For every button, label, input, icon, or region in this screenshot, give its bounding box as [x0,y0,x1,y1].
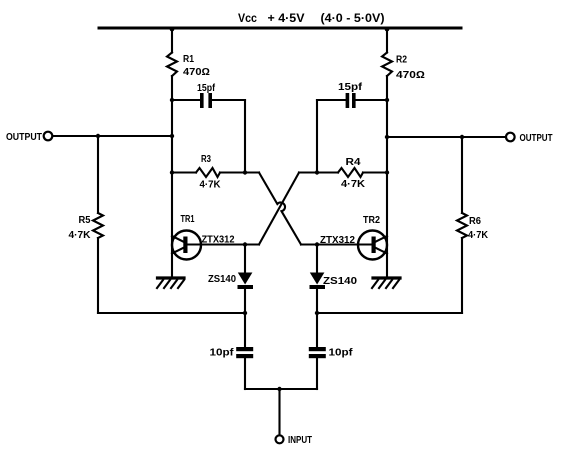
wire rail to R2 [386,28,388,53]
node OUTPUT-R5 junction [96,134,100,138]
node input junction [277,387,281,391]
R4 label [346,157,361,168]
svg-text:R5: R5 [79,215,91,226]
svg-text:R4: R4 [346,157,361,168]
Vcc range label [321,13,385,25]
svg-text:R2: R2 [396,55,407,66]
svg-text:10pf: 10pf [210,348,235,359]
OUTPUT left label [6,132,42,143]
wire node A down (C1 to R3 right end) [244,100,246,172]
C3 value label 10pf [210,348,235,359]
svg-text:10pf: 10pf [329,348,354,359]
svg-text:OUTPUT: OUTPUT [6,132,42,143]
R5 value 4.7K [69,230,92,241]
wire R6 branch lower [461,238,463,313]
node C2 right [385,98,389,102]
wire to capacitor C2 left plate [317,99,346,101]
R6 value 4.7K [468,230,489,241]
wire bottom center join [245,388,317,390]
capacitor C4 10pf right [309,347,326,358]
node OUTPUT-R6 junction [460,135,464,139]
OUTPUT left terminal [44,132,53,141]
svg-text:4·7K: 4·7K [69,230,92,241]
wire node B up to capacitor C2 [316,100,318,173]
wire C3 to bottom junction [244,358,246,389]
svg-text:R3: R3 [201,154,211,165]
node R4 right junction [385,170,389,174]
svg-text:ZS140: ZS140 [323,276,357,287]
OUTPUT right terminal [506,133,515,142]
node OUTPUT-collector right [385,135,389,139]
wire TR1 collector line (R1 to ground) [171,76,173,277]
R2 value 470 ohm [396,70,425,81]
D1 label ZS140 [208,274,236,285]
node D2-branch / bottom-right rail [315,311,319,315]
wire R4 to collector [363,171,387,173]
wire input lead [278,389,280,435]
node R3 left junction [170,170,174,174]
node D1-branch / bottom-left rail [243,311,247,315]
svg-text:470Ω: 470Ω [183,67,210,78]
ground TR2 emitter [372,278,400,288]
wire diode D2 to bottom node [316,289,318,347]
node rail-R1 [170,27,175,32]
node TR1 base / D1 junction [243,242,247,246]
transistor TR1 [172,231,201,260]
wire R5 branch upper [97,136,99,213]
svg-text:4·7K: 4·7K [200,180,222,191]
resistor R5 [93,213,103,238]
wire R5 branch lower [97,238,99,313]
INPUT terminal [276,435,284,443]
INPUT label [288,435,312,446]
node C1 left [170,98,174,102]
svg-text:(4·0 - 5·0V): (4·0 - 5·0V) [321,13,385,25]
wire bottom-left rail (R5 to D1 branch) [98,312,245,314]
C1 value label 15pf [197,83,216,94]
TR2 label [363,215,380,226]
resistor R1 [167,53,177,77]
svg-text:+ 4·5V: + 4·5V [268,13,305,25]
wire R6 branch upper [461,137,463,213]
resistor R6 [457,213,467,238]
svg-text:Vcc: Vcc [238,13,258,25]
svg-text:R6: R6 [469,216,481,227]
wire node A' to diode D1 [244,245,246,274]
wire cross stub top-left [245,171,259,173]
resistor R3 [196,168,220,177]
C4 value label 10pf [329,348,354,359]
node OUTPUT-collector junction [170,134,174,138]
wire node B to R4 [317,171,338,173]
Vcc power rail [99,27,461,30]
wire TR1 base lead [188,243,260,245]
TR1 type label ZTX312 [202,235,235,246]
wire capacitor C1 right plate to node [213,99,246,101]
R3 value 4.7K [200,180,222,191]
wire OUTPUT right [387,136,506,138]
svg-text:ZS140: ZS140 [208,274,236,285]
svg-text:4·7K: 4·7K [341,179,366,190]
resistor R2 [382,53,392,77]
svg-text:470Ω: 470Ω [396,70,425,81]
wire C4 to bottom junction [316,358,318,389]
svg-text:INPUT: INPUT [288,435,312,446]
svg-text:TR2: TR2 [363,215,380,226]
R4 value 4.7K [341,179,366,190]
diode D2 ZS140 [310,273,326,290]
Vcc label [238,13,305,25]
TR1 label [181,214,195,225]
wire to capacitor C1 left plate [172,99,200,101]
OUTPUT right label [520,133,553,144]
ground TR1 emitter [157,278,184,288]
R5 label [79,215,91,226]
wire cross stub top-right [299,171,317,173]
transistor TR2 [358,231,387,260]
wire cross diagonal B (node B to TR1 base) [259,173,299,245]
R1 label [183,54,194,65]
wire bottom-right rail (D2 branch to R6) [317,312,462,314]
diode D1 ZS140 [238,273,254,290]
R2 label [396,55,407,66]
node rail-R2 [385,27,390,32]
svg-text:15pf: 15pf [338,82,363,93]
C2 value label 15pf [338,82,363,93]
capacitor C3 10pf left [236,347,253,358]
wire collector to R3 [172,171,196,173]
wire TR2 collector line (R2 to ground) [386,76,388,277]
capacitor C1 15pf [200,93,212,108]
node B (R4/C2/cross) [315,170,319,174]
wire cross diagonal A (node A to TR2 base) with hop [259,173,301,245]
svg-text:15pf: 15pf [197,83,216,94]
svg-text:OUTPUT: OUTPUT [520,133,553,144]
wire diode D1 to bottom node [244,289,246,347]
TR2 type label ZTX312 [320,235,355,246]
svg-text:R1: R1 [183,54,194,65]
R6 label [469,216,481,227]
node TR2 base / D2 junction [315,242,319,246]
resistor R4 [338,168,363,177]
wire node B' to diode D2 [316,245,318,274]
wire capacitor C2 right plate to collector [356,99,388,101]
wire R3 to node A [220,171,245,173]
wire rail to R1 [171,28,173,53]
wire OUTPUT left to collector [53,135,173,137]
svg-text:4·7K: 4·7K [468,230,489,241]
R3 label [201,154,211,165]
wire TR2 base lead [301,243,371,245]
D2 label ZS140 [323,276,357,287]
R1 value 470 ohm [183,67,210,78]
node A (R3/C1/cross) [243,170,247,174]
svg-text:TR1: TR1 [181,214,195,225]
capacitor C2 15pf [346,93,356,108]
